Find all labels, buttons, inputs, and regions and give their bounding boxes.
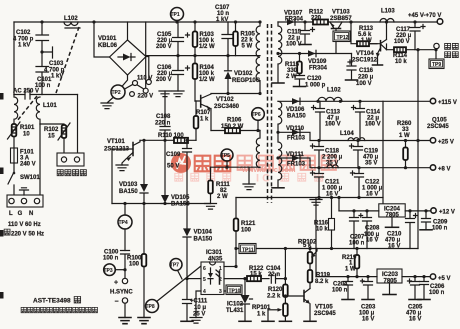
wire left vertical bbox=[13, 22, 15, 95]
svg-text:R120: R120 bbox=[268, 287, 283, 293]
capacitor C210 bbox=[406, 209, 418, 248]
wire top rail left bbox=[14, 21, 260, 23]
svg-text:22 n: 22 n bbox=[268, 272, 280, 278]
ground secondary top bbox=[272, 82, 284, 84]
svg-text:R119: R119 bbox=[316, 273, 331, 279]
resistor R116 bbox=[329, 196, 335, 250]
svg-text:+115 V: +115 V bbox=[438, 100, 457, 106]
wire hsync bus bbox=[112, 203, 211, 205]
svg-text:VT102: VT102 bbox=[216, 97, 234, 103]
capacitor C122 bbox=[351, 168, 364, 198]
regulation rail bbox=[236, 248, 418, 250]
scan edge tick 3 bbox=[0, 230, 4, 237]
junction dot R104 top bbox=[193, 54, 196, 57]
capacitor C103 bbox=[36, 52, 49, 95]
resistor R115 bbox=[297, 54, 302, 76]
wire R110 row bbox=[140, 139, 196, 141]
svg-text:220 V 50 Hz: 220 V 50 Hz bbox=[11, 232, 44, 238]
junction dots rail2 bbox=[317, 139, 359, 142]
capacitor C109 bbox=[183, 139, 192, 229]
ground TL431 bbox=[239, 320, 251, 322]
svg-text:VT105: VT105 bbox=[315, 305, 333, 311]
varistor R102 bbox=[58, 123, 70, 140]
wire R113 feed bbox=[351, 22, 357, 44]
svg-text:100: 100 bbox=[241, 228, 252, 234]
resistor R105 bbox=[233, 22, 238, 56]
capacitor C120 bbox=[295, 76, 305, 87]
wire emitter row bbox=[387, 49, 434, 51]
wire doubler mid bus bbox=[146, 55, 260, 57]
capacitor C107 bbox=[222, 22, 234, 56]
wire bridge AC left bbox=[94, 22, 110, 57]
shunt reg IC102 TL431 bbox=[241, 277, 253, 321]
wire mode feed vertical bbox=[416, 48, 419, 248]
ground RP101 bbox=[279, 320, 291, 322]
wire IC204 input bbox=[339, 210, 379, 212]
wire pin1 stub bbox=[224, 266, 236, 268]
svg-text:100 V: 100 V bbox=[356, 81, 372, 87]
svg-text:100: 100 bbox=[129, 262, 140, 268]
svg-text:5 k: 5 k bbox=[303, 243, 312, 249]
junction dots bus bbox=[317, 196, 360, 199]
wire IC203 output bbox=[402, 276, 430, 278]
svg-text:VD101: VD101 bbox=[98, 36, 117, 42]
svg-text:C109: C109 bbox=[166, 152, 181, 158]
capacitor C105 bbox=[173, 22, 190, 56]
resistor R112 bbox=[313, 20, 328, 25]
svg-text:1 W: 1 W bbox=[361, 38, 372, 44]
svg-text:IC301: IC301 bbox=[206, 250, 223, 256]
wire VD109 row bbox=[278, 42, 352, 54]
wire fuse to switch bbox=[13, 163, 15, 172]
capacitor C113 bbox=[312, 101, 325, 140]
transistor VT105 bbox=[285, 289, 310, 322]
transistor VT103 bbox=[330, 22, 342, 31]
svg-text:1 k: 1 k bbox=[257, 312, 266, 318]
wire neutral column bbox=[39, 124, 41, 195]
svg-text:200 V: 200 V bbox=[156, 77, 172, 83]
svg-text:VT101: VT101 bbox=[107, 139, 125, 145]
scan edge tick 4 bbox=[0, 292, 4, 299]
wire R102 to degauss plug bbox=[63, 138, 65, 153]
transistor VT101 bbox=[112, 140, 140, 165]
svg-text:5 W: 5 W bbox=[242, 44, 253, 50]
svg-text:TP6: TP6 bbox=[252, 112, 261, 118]
junction dot TP5 bbox=[225, 166, 228, 169]
svg-text:FR304: FR304 bbox=[309, 66, 328, 72]
svg-text:TP8: TP8 bbox=[146, 304, 155, 310]
svg-text:+12 V: +12 V bbox=[439, 210, 455, 216]
wire TP3 stub bbox=[115, 269, 125, 271]
choke L101 core diagonal bbox=[17, 96, 37, 121]
junction dot rail x94 bbox=[92, 20, 95, 23]
test point TP10 box bbox=[226, 285, 242, 295]
svg-text:16 V: 16 V bbox=[362, 317, 374, 323]
scan edge tick 2 bbox=[0, 168, 4, 175]
terminal 115V bbox=[430, 98, 457, 106]
rail 25V bbox=[278, 132, 430, 140]
junction dot C102/C103 bbox=[40, 50, 43, 53]
potentiometer RP101 bbox=[268, 297, 288, 321]
degauss choke L102 bbox=[64, 22, 80, 28]
capacitor C106 bbox=[173, 56, 190, 91]
regulator IC204 bbox=[379, 204, 405, 219]
resistor R122 bbox=[247, 276, 269, 281]
svg-text:8.2 k: 8.2 k bbox=[315, 279, 329, 285]
ground wiper bbox=[262, 310, 274, 322]
wire selector rail drop bbox=[145, 22, 147, 88]
svg-text:5: 5 bbox=[203, 277, 206, 283]
svg-text:TP2: TP2 bbox=[112, 90, 121, 96]
svg-text:VD110: VD110 bbox=[286, 126, 305, 132]
svg-text:C102: C102 bbox=[16, 30, 31, 36]
svg-text:2SC3460: 2SC3460 bbox=[214, 104, 240, 110]
capacitor C207s bbox=[350, 209, 359, 248]
fuse F101 bbox=[11, 148, 18, 163]
svg-text:2SB857: 2SB857 bbox=[330, 16, 352, 22]
spark gap stub bbox=[42, 47, 53, 58]
svg-text:+25 V: +25 V bbox=[438, 140, 454, 146]
svg-text:3: 3 bbox=[219, 289, 222, 295]
capacitor C108 bbox=[160, 91, 170, 140]
test point TP9 box bbox=[429, 50, 444, 69]
capacitor C115 bbox=[301, 22, 315, 44]
resistor R120 bbox=[283, 279, 288, 297]
ground hsync minus bbox=[119, 318, 131, 324]
wire degauss branch bbox=[40, 124, 64, 125]
svg-text:FR304: FR304 bbox=[285, 17, 304, 23]
wire VT101 base drop bbox=[111, 149, 113, 204]
svg-text:L102: L102 bbox=[327, 88, 341, 94]
transistor VT102 bbox=[195, 94, 211, 131]
junction dots rail1 bbox=[316, 100, 361, 103]
resistor R110 bbox=[174, 138, 188, 143]
capacitor C206 bbox=[418, 275, 430, 300]
svg-text:16 V: 16 V bbox=[409, 317, 421, 323]
capacitor C117 bbox=[410, 22, 425, 50]
svg-text:TP12: TP12 bbox=[337, 35, 349, 41]
resistor R114 bbox=[394, 47, 406, 52]
svg-text:SW101: SW101 bbox=[20, 175, 40, 181]
test point TP1 bbox=[171, 8, 184, 21]
svg-text:C208: C208 bbox=[365, 226, 380, 232]
svg-text:7805: 7805 bbox=[384, 278, 398, 284]
ground IC203 bbox=[383, 283, 396, 295]
junction dot R113 rail bbox=[349, 20, 352, 23]
svg-text:150 2 W: 150 2 W bbox=[221, 124, 244, 130]
test point TP3 bbox=[104, 264, 116, 276]
resistor R100 bbox=[142, 204, 147, 318]
svg-text:+45 V-+70 V: +45 V-+70 V bbox=[408, 13, 441, 19]
svg-text:BA150: BA150 bbox=[119, 189, 138, 195]
diode VD102 bbox=[225, 56, 232, 94]
svg-text:KBL06: KBL06 bbox=[98, 43, 118, 49]
ground VT104 bbox=[373, 64, 383, 66]
capacitor C111 bbox=[183, 279, 192, 321]
test point TP5 bbox=[221, 149, 233, 161]
earth pin bar bbox=[20, 188, 29, 195]
inductor L105 bbox=[327, 165, 338, 168]
wire VT102 collector bbox=[211, 93, 260, 95]
capacitor C114 bbox=[352, 101, 365, 140]
svg-text:−: − bbox=[115, 299, 119, 306]
svg-text:R110 100: R110 100 bbox=[158, 133, 184, 139]
junction dot C105 C106 bbox=[176, 54, 179, 57]
terminal hsync plus bbox=[114, 278, 128, 286]
test point TP2 bbox=[111, 85, 125, 99]
svg-text:16 V: 16 V bbox=[366, 192, 378, 198]
wire R101 to fuse bbox=[13, 137, 15, 149]
svg-text:+: + bbox=[114, 280, 118, 287]
svg-text:L101: L101 bbox=[43, 103, 57, 109]
wire IC204 output bbox=[405, 210, 431, 212]
svg-text:VD109: VD109 bbox=[308, 59, 327, 65]
svg-text:1: 1 bbox=[219, 266, 222, 272]
label degauss coil bbox=[57, 170, 86, 176]
diode VD103 bbox=[140, 140, 148, 203]
WATERMARK bbox=[171, 153, 336, 185]
svg-text:BA150: BA150 bbox=[287, 113, 306, 119]
resistor R113 bbox=[357, 41, 377, 46]
junction dot TP6 bbox=[256, 129, 259, 132]
resistor R219 bbox=[355, 247, 360, 278]
ground R111 bbox=[205, 204, 217, 210]
junction dot R115 bbox=[298, 52, 301, 55]
resistor R111 bbox=[208, 167, 213, 203]
wire R107 column bbox=[195, 101, 197, 140]
svg-text:1 kV: 1 kV bbox=[18, 43, 30, 49]
svg-text:+C111: +C111 bbox=[190, 299, 208, 305]
svg-text:220 V: 220 V bbox=[138, 94, 154, 100]
svg-text:220 μ: 220 μ bbox=[358, 75, 374, 81]
resistor R104 bbox=[193, 56, 198, 101]
svg-text:R102: R102 bbox=[44, 127, 59, 133]
resistor R103 bbox=[193, 22, 198, 56]
svg-text:TL431: TL431 bbox=[226, 308, 244, 314]
ground VT101 bbox=[116, 165, 128, 171]
junction dot R105 rail bbox=[234, 20, 237, 23]
junction dot VD103 top bbox=[142, 139, 145, 142]
test point TP12 box bbox=[333, 31, 350, 42]
wire emitter R106 bbox=[211, 130, 260, 132]
junction dot primary bottom bbox=[258, 92, 261, 95]
selector contacts bbox=[133, 80, 152, 94]
junction dot TP9 bbox=[434, 48, 437, 51]
degauss connector bbox=[57, 153, 84, 166]
ground VT105 bbox=[304, 320, 316, 322]
wire secondary rail top bbox=[278, 21, 437, 23]
svg-text:L102: L102 bbox=[64, 16, 78, 22]
svg-text:IC102: IC102 bbox=[227, 302, 244, 308]
capacitor C121 bbox=[311, 168, 324, 198]
svg-text:2.2 k: 2.2 k bbox=[267, 294, 281, 300]
junction dot feed bbox=[337, 196, 340, 199]
resistor R119 bbox=[308, 264, 313, 289]
diode VD110 bbox=[292, 129, 300, 135]
svg-text:VD104: VD104 bbox=[194, 230, 213, 236]
wire TP5 stub bbox=[226, 161, 228, 167]
svg-text:100 n: 100 n bbox=[429, 290, 445, 296]
ground C108 top bbox=[159, 91, 171, 97]
junction dot R100 bus bbox=[142, 202, 145, 205]
svg-text:160 V: 160 V bbox=[365, 122, 381, 128]
svg-text:VD111: VD111 bbox=[286, 152, 304, 158]
svg-text:15: 15 bbox=[48, 134, 55, 140]
test point TP11 box bbox=[239, 244, 256, 254]
ground bus symbol bbox=[310, 200, 322, 206]
svg-text:110 V: 110 V bbox=[137, 76, 152, 82]
resistor R121 bbox=[234, 198, 239, 269]
svg-text:AST-TE3498: AST-TE3498 bbox=[33, 298, 71, 305]
junction dot error rail bbox=[284, 247, 287, 250]
wire bridge right to selector bbox=[146, 57, 149, 80]
transformer secondary mid bbox=[278, 101, 282, 132]
diode VD109 bbox=[308, 50, 316, 56]
svg-text:VD102: VD102 bbox=[234, 71, 253, 77]
ground C111 bbox=[181, 320, 193, 322]
test point TP7 bbox=[170, 259, 182, 271]
wire bridge bottom to TP2 bbox=[123, 75, 128, 86]
svg-text:50 V: 50 V bbox=[167, 164, 179, 170]
resistor R107 bbox=[194, 116, 199, 129]
junction dot C107 bottom bbox=[226, 54, 229, 57]
wire TP7 stub bbox=[178, 270, 183, 279]
svg-text:100 n: 100 n bbox=[432, 226, 448, 232]
wire TP6 stub bbox=[257, 120, 259, 130]
degauss line vertical bbox=[77, 95, 79, 154]
test point TP4 bbox=[118, 204, 132, 251]
svg-text:C108: C108 bbox=[156, 114, 171, 120]
svg-text:16 V: 16 V bbox=[388, 244, 400, 250]
wire error node to rail bbox=[284, 249, 286, 279]
transformer primary upper bbox=[256, 22, 260, 94]
wire IC203 input bbox=[316, 276, 377, 278]
junction dot R121 rail bbox=[234, 247, 237, 250]
junction dot TP3 bbox=[123, 268, 126, 271]
label 220V 50Hz bbox=[4, 229, 44, 237]
svg-text:VT104: VT104 bbox=[356, 51, 374, 57]
ground C116 bbox=[346, 79, 358, 81]
svg-text:10 k: 10 k bbox=[316, 227, 328, 233]
test point TP8 bbox=[146, 300, 159, 313]
rail 115V bbox=[278, 100, 430, 102]
svg-text:2: 2 bbox=[219, 277, 222, 283]
svg-text:4: 4 bbox=[203, 289, 206, 295]
thermistor R101 bbox=[8, 122, 21, 139]
junction dot VD105 bus bbox=[163, 202, 166, 205]
transformer core bbox=[268, 24, 272, 203]
transformer secondary top bbox=[278, 22, 282, 82]
svg-text:10 μ: 10 μ bbox=[194, 305, 206, 311]
svg-text:R101: R101 bbox=[20, 125, 35, 131]
ground pin4 bbox=[190, 318, 202, 324]
title line 1 bbox=[33, 297, 81, 305]
transformer feedback winding bbox=[256, 131, 260, 168]
svg-text:100 n: 100 n bbox=[103, 256, 119, 262]
transistor VT104 bbox=[369, 22, 387, 60]
wire TP1 stub bbox=[176, 21, 178, 23]
svg-text:TP9: TP9 bbox=[432, 62, 441, 68]
watermark big char wei bbox=[195, 156, 211, 172]
wire IC204 feed drop bbox=[338, 198, 340, 211]
terminal 45-70V bbox=[408, 13, 443, 24]
svg-text:160 V: 160 V bbox=[325, 122, 341, 128]
svg-text:VD106: VD106 bbox=[286, 107, 305, 113]
svg-text:TP10: TP10 bbox=[229, 288, 241, 294]
svg-text:TP4: TP4 bbox=[119, 220, 128, 226]
bridge rectifier VD101 bbox=[110, 40, 147, 75]
junction dot secondary tap bbox=[276, 52, 279, 55]
svg-text:10: 10 bbox=[23, 132, 30, 138]
wire bottom AC horizontal bbox=[14, 94, 78, 96]
wire feedback bottom bbox=[211, 166, 261, 168]
rail 8V bbox=[278, 158, 430, 168]
svg-text:R106: R106 bbox=[227, 118, 242, 124]
svg-text:+8 V: +8 V bbox=[438, 167, 451, 173]
junction dot primary top bbox=[258, 20, 261, 23]
junction dot VD102 collector bbox=[226, 92, 229, 95]
svg-text:200 V: 200 V bbox=[156, 44, 172, 50]
junction dot VT104 collector bbox=[385, 20, 388, 23]
wire TP8 diagonal bbox=[157, 266, 201, 302]
ground under C106 bbox=[172, 91, 184, 97]
choke L101 right winding bbox=[36, 97, 40, 124]
capacitor C102 bbox=[36, 22, 49, 52]
junction dots rail3 bbox=[317, 166, 360, 169]
svg-text:R121: R121 bbox=[241, 221, 256, 227]
ground feedback bbox=[243, 167, 255, 189]
svg-text:C120: C120 bbox=[307, 76, 322, 82]
watermark big char ku bbox=[215, 156, 231, 172]
terminal 8V bbox=[430, 165, 450, 173]
mains connector bbox=[7, 195, 43, 207]
regulator IC203 bbox=[377, 269, 402, 284]
svg-text:IC203: IC203 bbox=[382, 272, 399, 278]
wire pin5 stub bbox=[187, 278, 201, 280]
svg-text:100 n: 100 n bbox=[332, 288, 348, 294]
svg-text:TP1: TP1 bbox=[171, 12, 180, 18]
capacitor C119 bbox=[350, 141, 363, 168]
wire pin4 ground bbox=[196, 291, 201, 318]
diode VD105 bbox=[161, 140, 169, 203]
wire vertical IC203 feed bbox=[315, 198, 317, 277]
watermark chars dianzishichangwang bbox=[238, 156, 252, 170]
wire VT104 emitter ground bbox=[377, 60, 379, 65]
svg-text:+5 V: +5 V bbox=[438, 276, 451, 282]
potentiometer RP102 bbox=[308, 247, 317, 264]
svg-text:1 k: 1 k bbox=[200, 117, 209, 123]
terminal 220V left bbox=[130, 92, 154, 100]
degauss dashed coupling bbox=[56, 27, 79, 93]
svg-text:1/2 W: 1/2 W bbox=[199, 77, 215, 83]
svg-text:25 V: 25 V bbox=[193, 312, 205, 318]
optocoupler IC301 bbox=[201, 262, 224, 295]
svg-text:R107: R107 bbox=[196, 110, 211, 116]
svg-text:16 V: 16 V bbox=[366, 238, 378, 244]
wire bridge top bbox=[127, 22, 129, 40]
junction dot TP1 bbox=[175, 20, 178, 23]
svg-text:VT103: VT103 bbox=[332, 10, 350, 16]
svg-text:100 V: 100 V bbox=[394, 39, 410, 45]
svg-text:240 V: 240 V bbox=[20, 162, 36, 168]
switch SW101 bbox=[8, 172, 15, 195]
wire ground bus mid bbox=[236, 197, 383, 199]
diode VD104 bbox=[183, 228, 191, 280]
svg-text:2SC1213: 2SC1213 bbox=[104, 147, 130, 153]
watermark logo circle bbox=[171, 153, 191, 173]
svg-text:2 W: 2 W bbox=[217, 194, 228, 200]
svg-text:VD103: VD103 bbox=[119, 182, 138, 188]
